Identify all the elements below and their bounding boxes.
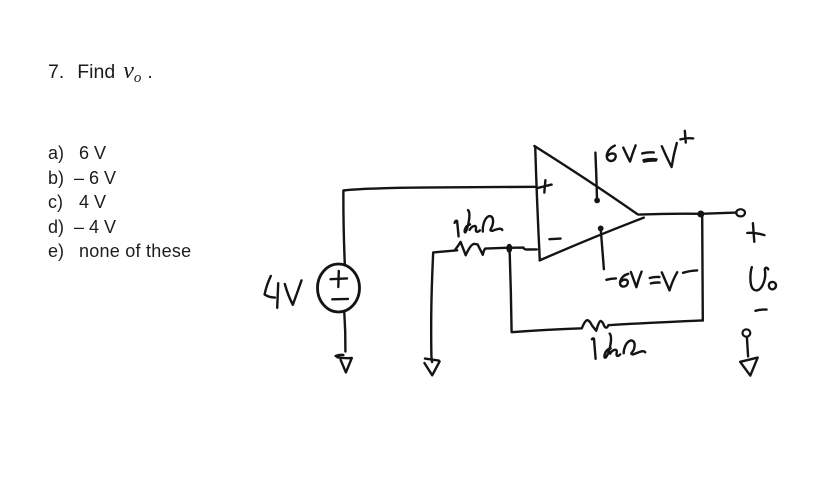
op-amp U1 triangle left edge — [535, 146, 540, 260]
op-amp minus input marker — [549, 237, 560, 240]
wire feedback bottom with resistor R2 — [512, 320, 703, 332]
output terminal circle — [736, 209, 745, 216]
label 6V = V+ — [607, 131, 693, 167]
op-amp plus input marker — [537, 180, 552, 192]
node junction output — [697, 211, 704, 218]
label plus (vo) — [747, 223, 764, 242]
op-amp U1 triangle bottom edge — [540, 218, 644, 261]
wire node to op-amp minus input — [509, 248, 536, 250]
V+ rail dot — [594, 198, 600, 204]
op-amp U1 triangle top edge — [534, 146, 637, 214]
node junction minus input — [506, 244, 512, 253]
wire to ground G3 — [747, 337, 748, 356]
voltage source plus sign — [331, 271, 348, 287]
label -6V = V- — [606, 270, 697, 290]
ground G1 — [336, 355, 352, 373]
output ground terminal circle — [743, 329, 751, 336]
wire source top to op-amp plus input — [343, 187, 535, 265]
V+ supply rail — [595, 153, 597, 199]
wire ground2 vertical — [431, 250, 457, 362]
wire feedback left vertical — [510, 250, 512, 332]
label minus (vo) — [755, 310, 766, 311]
resistor R1 squiggle — [455, 242, 509, 255]
ground G2 — [424, 359, 439, 376]
label vo — [750, 267, 776, 290]
voltage source VS1 4V — [318, 264, 360, 312]
wire source bottom — [344, 313, 345, 352]
voltage source minus sign — [332, 298, 348, 301]
wire feedback right vertical — [701, 216, 704, 321]
ground G3 — [740, 358, 758, 376]
V- supply rail — [601, 229, 604, 270]
label 1k bottom — [592, 334, 645, 359]
label 1k left — [455, 210, 503, 236]
label 4V — [265, 276, 302, 308]
wire op-amp output — [639, 213, 737, 215]
V- rail dot — [598, 226, 604, 232]
